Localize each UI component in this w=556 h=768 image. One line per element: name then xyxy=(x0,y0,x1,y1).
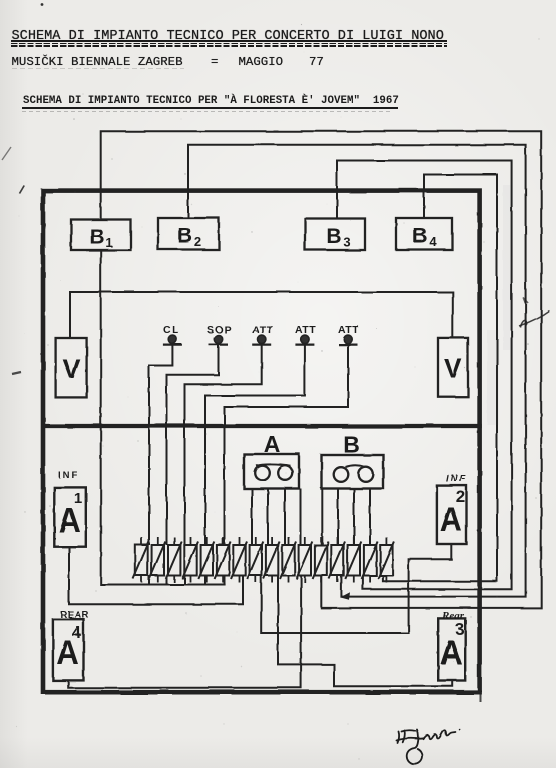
svg-text:V: V xyxy=(444,354,462,384)
svg-text:B: B xyxy=(412,225,427,248)
svg-text:ATT: ATT xyxy=(338,324,359,336)
svg-text:B: B xyxy=(177,225,192,248)
svg-text:SOP: SOP xyxy=(207,324,232,336)
svg-text:4: 4 xyxy=(72,623,82,642)
svg-text:ATT: ATT xyxy=(252,324,273,336)
svg-text:Rear: Rear xyxy=(441,610,465,622)
svg-text:3: 3 xyxy=(455,620,464,639)
svg-text:INF: INF xyxy=(58,470,79,481)
svg-text:V: V xyxy=(62,354,80,384)
svg-text:3: 3 xyxy=(343,235,350,250)
svg-text:B: B xyxy=(326,225,341,248)
svg-text:INF: INF xyxy=(446,474,467,485)
svg-text:1: 1 xyxy=(74,490,82,507)
svg-text:B: B xyxy=(89,226,104,249)
svg-text:ATT: ATT xyxy=(295,324,316,336)
svg-text:B: B xyxy=(343,432,360,458)
svg-text:CL: CL xyxy=(163,324,180,336)
svg-text:A: A xyxy=(264,431,281,457)
svg-text:2: 2 xyxy=(456,487,465,506)
svg-text:2: 2 xyxy=(194,234,201,249)
svg-text:REAR: REAR xyxy=(60,610,89,621)
svg-text:4: 4 xyxy=(429,234,437,249)
svg-text:1: 1 xyxy=(105,235,112,250)
svg-text:A: A xyxy=(440,633,463,672)
